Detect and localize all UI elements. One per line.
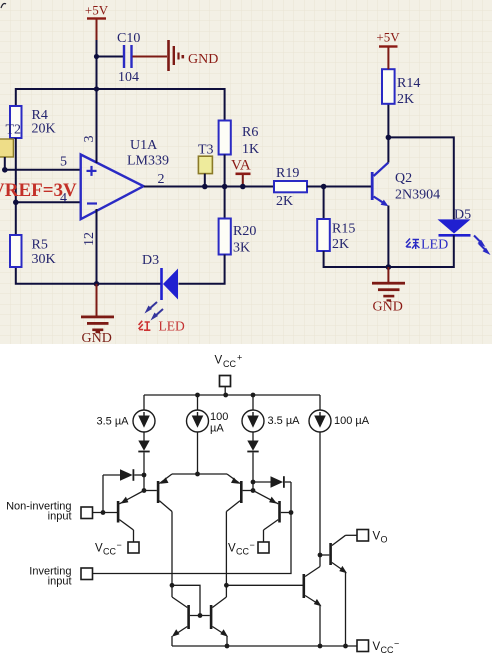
svg-text:T3: T3 — [198, 143, 214, 158]
svg-text:R15: R15 — [332, 222, 355, 237]
svg-text:R14: R14 — [397, 76, 420, 91]
svg-text:2N3904: 2N3904 — [395, 188, 440, 203]
svg-text:LED: LED — [421, 238, 448, 253]
node emitter/gnd — [386, 264, 392, 270]
ground GND (left bottom) — [81, 284, 114, 346]
wire R15 to emitter node — [324, 251, 389, 267]
pin number 12 (rotated) — [82, 232, 97, 246]
wire R6 to node — [224, 155, 226, 187]
svg-text:+5V: +5V — [85, 3, 109, 18]
wire Q2 emitter down — [387, 206, 389, 268]
node input tap — [101, 510, 106, 515]
node rail-vcc — [223, 393, 228, 398]
svg-text:+: + — [237, 353, 242, 363]
node T2 on +input — [2, 167, 8, 173]
node rail Q5 — [318, 644, 323, 649]
svg-text:−: − — [250, 540, 255, 550]
wire Q2i collector down — [171, 512, 173, 598]
node R15 tap — [321, 184, 327, 190]
clamp diode D4i (right) — [253, 476, 291, 488]
svg-text:100 µA: 100 µA — [334, 415, 370, 427]
wire top rail — [144, 394, 320, 396]
wire Q3 collector down — [225, 512, 227, 598]
label red LED — [139, 319, 185, 334]
wire bottom rail left — [16, 267, 161, 284]
capacitor C10 — [117, 31, 140, 85]
svg-text:12: 12 — [82, 232, 97, 246]
node right diode — [251, 480, 256, 485]
svg-text:−: − — [117, 540, 122, 550]
resistor R20 — [219, 219, 257, 256]
wire output pin 2 — [144, 186, 274, 188]
wire to C10 — [97, 56, 124, 58]
resistor R5 — [10, 235, 56, 267]
node R6/R20 — [222, 184, 228, 190]
wire main top rail — [16, 89, 225, 121]
svg-text:2: 2 — [158, 172, 165, 187]
node emitter bus / I2 — [195, 472, 200, 477]
node rail-cs2 — [195, 393, 200, 398]
terminal inverting input — [81, 568, 93, 580]
transistor Q3 (inner right PNP) — [226, 474, 253, 512]
wire Q4 base to inverting input — [93, 482, 292, 574]
node rail-cs3 — [251, 393, 256, 398]
svg-text:GND: GND — [82, 331, 112, 346]
pin 12 wire — [96, 209, 98, 284]
svg-text:3.5 µA: 3.5 µA — [96, 416, 129, 428]
svg-text:−: − — [394, 639, 399, 649]
node mirror diode side — [170, 583, 175, 588]
terminal VCC+ — [220, 376, 231, 396]
svg-text:1K: 1K — [242, 142, 259, 157]
power port VA — [231, 158, 251, 187]
svg-text:CC: CC — [103, 547, 116, 557]
wire I2 down — [197, 432, 199, 474]
svg-text:VA: VA — [231, 158, 251, 174]
svg-text:O: O — [381, 535, 388, 545]
corner mark — [1, 4, 6, 9]
current source I4 100uA — [309, 395, 370, 432]
wire I4 down — [319, 432, 321, 555]
transistor Q2 — [371, 163, 440, 207]
diode D1 (below I1) — [138, 432, 149, 475]
svg-text:T2: T2 — [6, 123, 22, 138]
ground GND (right) — [372, 267, 405, 315]
wire C10 to GND symbol — [133, 56, 168, 58]
svg-text:V: V — [228, 543, 236, 555]
transistor M1 (mirror left NPN) — [172, 597, 210, 646]
node pin12/gnd — [94, 281, 100, 287]
node mirror output — [224, 583, 229, 588]
svg-text:104: 104 — [118, 70, 139, 85]
wire node to R15 — [323, 187, 325, 220]
transistor Q1 (input PNP) — [117, 491, 144, 543]
resistor R14 — [382, 69, 420, 107]
current source I2 100uA — [187, 395, 229, 435]
svg-text:30K: 30K — [32, 252, 56, 267]
wire Q2 collector to R14 — [387, 104, 389, 163]
ground GND (top, sideways) — [169, 40, 219, 71]
svg-text:V: V — [95, 543, 103, 555]
label Non-inverting input — [6, 501, 71, 523]
svg-text:input: input — [48, 511, 72, 523]
svg-text:5: 5 — [60, 155, 67, 170]
pin number 5 — [60, 155, 67, 170]
svg-text:R5: R5 — [32, 238, 48, 253]
wire left vert to base node — [143, 475, 145, 491]
power +5V (left) — [85, 3, 109, 43]
node rail M2 — [225, 644, 230, 649]
wire D5 to emitter rail — [388, 235, 453, 267]
svg-text:GND: GND — [188, 52, 218, 67]
svg-text:CC: CC — [236, 547, 249, 557]
wire D5 branch — [388, 137, 453, 219]
D3 light arrows — [145, 302, 164, 321]
transistor Q5 (driver NPN) — [303, 555, 322, 646]
svg-text:R20: R20 — [233, 224, 256, 239]
diode D2 (below I3) — [247, 432, 258, 482]
svg-text:R19: R19 — [276, 166, 299, 181]
svg-text:+5V: +5V — [376, 30, 400, 45]
svg-text:2K: 2K — [332, 237, 349, 252]
wire +input (pin 5) — [5, 169, 81, 171]
pin 3 wire — [96, 89, 98, 163]
node driver/output — [318, 553, 323, 558]
net label VREF=3V — [0, 180, 77, 201]
wire emitter bus — [172, 473, 227, 475]
svg-text:input: input — [48, 576, 72, 588]
label VCC+ — [215, 353, 243, 370]
svg-text:CC: CC — [381, 645, 394, 655]
svg-text:2K: 2K — [276, 194, 293, 209]
transistor M2 (mirror right NPN) — [210, 597, 228, 646]
node Q4 base — [289, 510, 294, 515]
wire R19 to Q2 base — [307, 186, 371, 188]
transistor Q2i (inner left PNP) — [144, 474, 172, 512]
svg-text:LM339: LM339 — [127, 154, 169, 169]
wire +5V to junction — [96, 40, 98, 89]
svg-text:V: V — [373, 531, 381, 543]
wire mirror to driver base — [226, 584, 302, 586]
op-amp U1A — [81, 138, 169, 219]
node Q1e/Q2b — [142, 488, 147, 493]
node collector / D5 branch — [386, 135, 392, 141]
LED D3 — [142, 253, 178, 300]
svg-text:3.5 µA: 3.5 µA — [268, 415, 301, 427]
terminal VCC- (left) — [95, 540, 139, 557]
svg-text:U1A: U1A — [130, 138, 158, 153]
power +5V (right) — [376, 30, 400, 70]
pin number 3 (rotated) — [82, 136, 97, 143]
wire -input (pin 4) — [16, 201, 81, 203]
resistor R4 — [10, 106, 56, 138]
resistor R19 — [274, 166, 307, 209]
terminal VO — [346, 530, 388, 545]
terminal VCC- (bottom right) — [357, 639, 399, 656]
node main rail — [94, 86, 99, 91]
label green LED — [406, 238, 448, 253]
terminal non-inverting input — [81, 507, 117, 519]
node mirror base rail — [198, 613, 203, 618]
terminal VCC- (right) — [228, 540, 269, 557]
svg-text:C10: C10 — [117, 31, 140, 46]
LED D5 — [438, 208, 472, 236]
transistor Q4 (input PNP right) — [253, 491, 291, 543]
resistor R6 — [219, 121, 260, 158]
wire right vert to base node — [252, 482, 254, 491]
wire R4 to R5 — [15, 138, 17, 235]
schematic sheet background — [0, 0, 492, 344]
svg-text:20K: 20K — [32, 122, 56, 137]
pin number 4 — [60, 191, 67, 206]
clamp diode D3i (left) — [103, 469, 144, 481]
pin number 2 — [158, 172, 165, 187]
svg-text:D3: D3 — [142, 253, 159, 268]
resistor R15 — [317, 219, 355, 252]
svg-text:4: 4 — [60, 191, 67, 206]
current source I3 3.5uA — [242, 395, 300, 432]
wire clamp to input (left) — [102, 475, 104, 513]
svg-text:GND: GND — [373, 300, 403, 315]
node C10 tap — [94, 54, 99, 59]
svg-text:V: V — [373, 641, 381, 653]
svg-text:Q2: Q2 — [395, 171, 412, 186]
node left diode/emitter — [142, 473, 147, 478]
node rail Q6 — [343, 644, 348, 649]
wire R20 down to bottom rail — [179, 255, 225, 284]
node divider to -input — [13, 200, 19, 206]
svg-text:V: V — [215, 355, 223, 367]
node Q4e/Q3b — [251, 488, 256, 493]
svg-text:CC: CC — [223, 359, 236, 369]
svg-text:R6: R6 — [242, 125, 258, 140]
svg-text:100: 100 — [210, 411, 228, 423]
svg-text:LED: LED — [159, 319, 185, 334]
svg-text:µA: µA — [210, 423, 224, 435]
wire diode connection — [172, 585, 200, 615]
transistor Q6 (output NPN) — [320, 535, 347, 646]
svg-text:2K: 2K — [397, 92, 414, 107]
wire node to R20 — [224, 187, 226, 219]
svg-text:3K: 3K — [233, 241, 250, 256]
testpoint T2 — [0, 123, 21, 170]
label Inverting input — [29, 566, 71, 588]
node T3 — [202, 184, 208, 190]
svg-text:3: 3 — [82, 136, 97, 143]
wire bottom rail — [172, 645, 357, 647]
D5 light arrows — [474, 236, 491, 256]
current source I1 3.5uA — [96, 395, 155, 432]
testpoint T3 — [198, 143, 214, 187]
node VA — [240, 184, 246, 190]
